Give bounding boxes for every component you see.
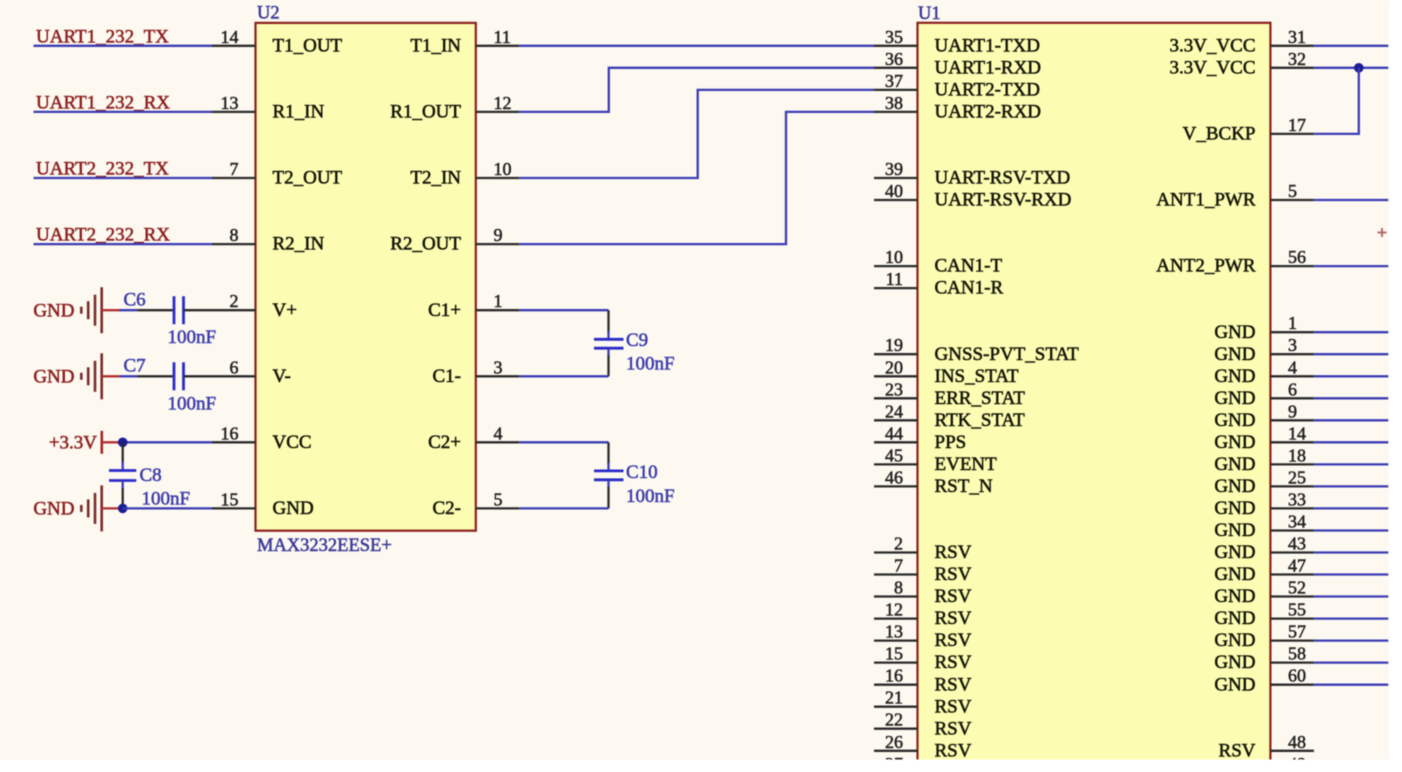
svg-text:13: 13 [221, 93, 239, 113]
svg-text:2: 2 [894, 534, 903, 554]
wire GND to junction [102, 507, 123, 509]
power port +3.3V [49, 431, 123, 454]
svg-text:2: 2 [230, 291, 239, 311]
svg-text:39: 39 [885, 159, 903, 179]
U1 pin 2 RSV [874, 534, 972, 564]
IC U1 designator label [918, 4, 941, 24]
svg-text:U2: U2 [257, 4, 280, 24]
svg-text:7: 7 [894, 556, 903, 576]
svg-text:R1_OUT: R1_OUT [390, 102, 461, 123]
U2 pin 6 V- [212, 357, 291, 387]
svg-text:C7: C7 [124, 356, 146, 377]
wire GND pin34 [1314, 529, 1388, 531]
svg-text:100nF: 100nF [142, 489, 191, 510]
U1 pin 48 RSV [1219, 732, 1314, 762]
U1 pin 43 GND [1214, 534, 1314, 564]
U1 pin 23 ERR_STAT [874, 379, 1025, 409]
svg-text:19: 19 [885, 335, 903, 355]
IC U2 designator label [257, 4, 280, 24]
svg-text:24: 24 [885, 401, 903, 421]
svg-text:13: 13 [885, 622, 903, 642]
svg-text:ERR_STAT: ERR_STAT [935, 388, 1026, 409]
svg-text:8: 8 [230, 225, 239, 245]
svg-text:43: 43 [1288, 534, 1306, 554]
power port + (clipped) [1378, 228, 1387, 237]
svg-text:100nF: 100nF [168, 393, 217, 414]
wire GND pin58 [1314, 661, 1388, 663]
svg-text:VCC: VCC [273, 432, 312, 453]
svg-text:MAX3232EESE+: MAX3232EESE+ [257, 536, 392, 556]
svg-text:18: 18 [1288, 445, 1306, 465]
wire GND pin1 [1314, 331, 1388, 333]
U1 pin 45 EVENT [874, 445, 997, 475]
U2 pin 14 T1_OUT [212, 27, 343, 57]
svg-text:9: 9 [494, 225, 503, 245]
U1 pin 25 GND [1214, 467, 1314, 497]
U1 pin 21 RSV [874, 688, 972, 718]
U1 pin 35 UART1-TXD [874, 27, 1040, 57]
wire GND pin3 [1314, 353, 1388, 355]
svg-text:12: 12 [885, 600, 903, 620]
svg-text:1: 1 [1288, 313, 1297, 333]
svg-text:GND: GND [1214, 520, 1255, 541]
net label UART1_232_TX [36, 26, 169, 47]
svg-text:PPS: PPS [935, 432, 967, 453]
U2 pin 4 C2+ [428, 423, 519, 453]
wire GND pin55 [1314, 617, 1388, 619]
svg-text:3: 3 [494, 357, 503, 377]
wire GND pin47 [1314, 573, 1388, 575]
svg-text:GND: GND [33, 367, 74, 388]
capacitor C9 100nF [594, 310, 675, 376]
svg-text:GND: GND [33, 301, 74, 322]
wire GND to C6 [102, 309, 138, 311]
svg-text:31: 31 [1288, 27, 1306, 47]
U2 pin 11 T1_IN [410, 27, 519, 57]
U2 pin 8 R2_IN [212, 225, 325, 255]
U2 part name MAX3232EESE+ [257, 536, 392, 556]
U1 pin 37 UART2-TXD [874, 71, 1040, 101]
wire C2+ pin4 loop top [519, 441, 608, 443]
ground symbol GND (C6 row) [33, 287, 101, 333]
svg-text:RSV: RSV [935, 696, 972, 717]
svg-text:46: 46 [885, 467, 903, 487]
svg-text:GND: GND [1214, 344, 1255, 365]
U1 pin 40 UART-RSV-RXD [874, 181, 1071, 211]
U1 pin 3 GND [1214, 335, 1314, 365]
svg-text:INS_STAT: INS_STAT [935, 366, 1019, 387]
U1 pin 12 RSV [874, 600, 972, 630]
svg-text:C9: C9 [626, 330, 648, 351]
svg-text:14: 14 [1288, 423, 1306, 443]
capacitor C7 100nF [124, 356, 217, 415]
svg-text:GND: GND [1214, 652, 1255, 673]
U1 pin 26 RSV [874, 732, 972, 762]
svg-text:21: 21 [885, 688, 903, 708]
U2 pin 5 C2- [433, 489, 520, 519]
svg-text:15: 15 [885, 644, 903, 664]
svg-text:6: 6 [230, 357, 239, 377]
svg-text:RSV: RSV [935, 674, 972, 695]
svg-text:6: 6 [1288, 379, 1297, 399]
U1 pin 18 GND [1214, 445, 1314, 475]
svg-text:ANT1_PWR: ANT1_PWR [1156, 190, 1256, 211]
svg-text:UART2_232_RX: UART2_232_RX [36, 225, 170, 246]
svg-text:UART2-RXD: UART2-RXD [935, 102, 1042, 123]
svg-text:UART1_232_RX: UART1_232_RX [36, 93, 170, 114]
svg-text:V-: V- [273, 366, 291, 387]
svg-text:GND: GND [1214, 432, 1255, 453]
svg-text:C1-: C1- [433, 366, 462, 387]
wire GND pin9 [1314, 419, 1388, 421]
svg-text:16: 16 [885, 666, 903, 686]
svg-text:60: 60 [1288, 666, 1306, 686]
wire GND pin60 [1314, 684, 1388, 686]
svg-text:RTK_STAT: RTK_STAT [935, 410, 1026, 431]
svg-text:C6: C6 [124, 290, 146, 311]
U1 pin 31 3.3V_VCC [1169, 27, 1313, 57]
U1 pin 8 RSV [874, 578, 972, 608]
U2 pin 10 T2_IN [410, 159, 519, 189]
capacitor C6 100nF [124, 290, 217, 349]
svg-text:23: 23 [885, 379, 903, 399]
U1 pin 22 RSV [874, 710, 972, 740]
U1 pin 57 GND [1214, 622, 1314, 652]
svg-text:RSV: RSV [935, 630, 972, 651]
svg-text:58: 58 [1288, 644, 1306, 664]
wire GND pin43 [1314, 551, 1388, 553]
U1 pin 16 RSV [874, 666, 972, 696]
U2 pin 13 R1_IN [212, 93, 325, 123]
svg-text:UART-RSV-RXD: UART-RSV-RXD [935, 190, 1072, 211]
svg-text:GND: GND [1214, 630, 1255, 651]
svg-text:UART1_232_TX: UART1_232_TX [36, 26, 169, 47]
svg-text:4: 4 [494, 423, 503, 443]
U1 pin 32 3.3V_VCC [1169, 49, 1313, 79]
U1 pin 44 PPS [874, 423, 966, 453]
wire net UART2_232_TX to U2 [34, 177, 213, 179]
svg-text:RSV: RSV [1219, 740, 1256, 761]
wire V_BCKP pin17 to junction [1314, 68, 1359, 134]
svg-text:22: 22 [885, 710, 903, 730]
svg-text:5: 5 [494, 489, 503, 509]
wire net UART1_232_TX to U2 [34, 45, 213, 47]
wire GND pin52 [1314, 595, 1388, 597]
U1 pin 20 INS_STAT [874, 357, 1019, 387]
svg-text:C1+: C1+ [428, 300, 461, 321]
svg-text:ANT2_PWR: ANT2_PWR [1156, 256, 1256, 277]
svg-text:UART-RSV-TXD: UART-RSV-TXD [935, 168, 1071, 189]
svg-text:GNSS-PVT_STAT: GNSS-PVT_STAT [935, 344, 1080, 365]
svg-text:37: 37 [885, 71, 903, 91]
svg-text:100nF: 100nF [626, 354, 675, 375]
U1 pin 27 RSV [874, 754, 972, 772]
net label UART2_232_RX [36, 225, 170, 246]
svg-text:7: 7 [230, 159, 239, 179]
U1 pin 9 GND [1214, 401, 1314, 431]
wire +3.3V to VCC pin 16 [123, 441, 212, 443]
svg-text:8: 8 [894, 578, 903, 598]
U1 pin 56 ANT2_PWR [1156, 247, 1314, 277]
U1 pin 14 GND [1214, 423, 1314, 453]
net label UART1_232_RX [36, 93, 170, 114]
wire T2_IN to UART2-TXD [519, 90, 874, 178]
svg-text:36: 36 [885, 49, 903, 69]
svg-text:+3.3V: +3.3V [49, 433, 97, 454]
svg-text:UART1-RXD: UART1-RXD [935, 57, 1042, 78]
U1 pin 5 ANT1_PWR [1156, 181, 1314, 211]
svg-text:11: 11 [886, 269, 903, 289]
ground symbol GND (C8 row) [33, 485, 101, 531]
svg-text:RSV: RSV [935, 542, 972, 563]
svg-text:UART2_232_TX: UART2_232_TX [36, 159, 169, 180]
U2 pin 12 R1_OUT [390, 93, 519, 123]
svg-text:GND: GND [1214, 388, 1255, 409]
wire net UART1_232_RX to U2 [34, 111, 213, 113]
svg-text:EVENT: EVENT [935, 454, 998, 475]
junction node at C8 top [118, 438, 128, 448]
U2 pin 3 C1- [433, 357, 520, 387]
svg-text:GND: GND [1214, 322, 1255, 343]
svg-text:R1_IN: R1_IN [273, 102, 325, 123]
svg-text:C2-: C2- [433, 498, 462, 519]
U1 pin 19 GNSS-PVT_STAT [874, 335, 1079, 365]
U1 pin 11 CAN1-R [874, 269, 1003, 299]
ground symbol GND (C7 row) [33, 353, 101, 399]
svg-text:40: 40 [885, 181, 903, 201]
svg-text:32: 32 [1288, 49, 1306, 69]
wire T1_IN to UART1-TXD [519, 45, 874, 47]
svg-text:11: 11 [494, 27, 511, 47]
svg-text:GND: GND [1214, 454, 1255, 475]
svg-text:T2_OUT: T2_OUT [273, 168, 343, 189]
capacitor C10 100nF [594, 442, 675, 508]
U1 pin 13 RSV [874, 622, 972, 652]
svg-text:V+: V+ [273, 300, 297, 321]
IC U2 MAX3232EESE+ body [256, 23, 476, 531]
svg-text:10: 10 [885, 247, 903, 267]
svg-text:GND: GND [273, 498, 314, 519]
U1 pin 1 GND [1214, 313, 1314, 343]
svg-text:RST_N: RST_N [935, 476, 993, 497]
U1 pin 7 RSV [874, 556, 972, 586]
svg-text:26: 26 [885, 732, 903, 752]
svg-text:C10: C10 [626, 462, 658, 483]
svg-text:9: 9 [1288, 401, 1297, 421]
svg-text:52: 52 [1288, 578, 1306, 598]
svg-text:T2_IN: T2_IN [410, 168, 461, 189]
wire GND pin6 [1314, 397, 1388, 399]
svg-text:RSV: RSV [935, 608, 972, 629]
svg-text:GND: GND [1214, 366, 1255, 387]
svg-text:15: 15 [221, 489, 239, 509]
svg-text:CAN1-T: CAN1-T [935, 256, 1003, 277]
U2 pin 16 VCC [212, 423, 312, 453]
svg-text:R2_OUT: R2_OUT [390, 234, 461, 255]
svg-text:16: 16 [221, 423, 239, 443]
svg-text:38: 38 [885, 93, 903, 113]
U1 pin 38 UART2-RXD [874, 93, 1041, 123]
wire R2_OUT to UART2-RXD [519, 112, 874, 244]
svg-text:3.3V_VCC: 3.3V_VCC [1169, 57, 1255, 78]
svg-text:T1_IN: T1_IN [410, 35, 461, 56]
svg-text:GND: GND [1214, 564, 1255, 585]
svg-text:GND: GND [1214, 608, 1255, 629]
svg-text:T1_OUT: T1_OUT [273, 35, 343, 56]
U1 pin 49 RSV [1219, 754, 1314, 772]
wire GND pin25 [1314, 485, 1388, 487]
U1 pin 17 V_BCKP [1183, 115, 1314, 145]
svg-text:33: 33 [1288, 489, 1306, 509]
wire GND pin4 [1314, 375, 1388, 377]
svg-text:4: 4 [1288, 357, 1297, 377]
wire ANT2_PWR pin56 [1314, 265, 1388, 267]
svg-text:RSV: RSV [935, 652, 972, 673]
svg-text:34: 34 [1288, 512, 1306, 532]
wire GND to C7 [102, 375, 138, 377]
svg-text:3.3V_VCC: 3.3V_VCC [1169, 35, 1255, 56]
svg-text:CAN1-R: CAN1-R [935, 278, 1004, 299]
svg-text:48: 48 [1288, 732, 1306, 752]
svg-text:1: 1 [494, 291, 503, 311]
wire 3.3V_VCC pin31 [1314, 45, 1388, 47]
svg-text:GND: GND [1214, 476, 1255, 497]
U1 pin 24 RTK_STAT [874, 401, 1025, 431]
U1 pin 60 GND [1214, 666, 1314, 696]
svg-text:C8: C8 [140, 465, 162, 486]
svg-text:17: 17 [1288, 115, 1306, 135]
svg-text:U1: U1 [918, 4, 941, 24]
wire GND pin57 [1314, 639, 1388, 641]
wire GND pin14 [1314, 441, 1388, 443]
svg-text:55: 55 [1288, 600, 1306, 620]
wire GND pin18 [1314, 463, 1388, 465]
svg-text:56: 56 [1288, 247, 1306, 267]
svg-text:GND: GND [1214, 586, 1255, 607]
svg-text:12: 12 [494, 93, 512, 113]
U1 pin 58 GND [1214, 644, 1314, 674]
capacitor C8 100nF [109, 442, 190, 509]
svg-text:100nF: 100nF [168, 327, 217, 348]
svg-text:47: 47 [1288, 556, 1306, 576]
svg-text:RSV: RSV [935, 740, 972, 761]
svg-text:35: 35 [885, 27, 903, 47]
svg-text:GND: GND [1214, 542, 1255, 563]
wire C2- pin5 loop bottom [519, 507, 608, 509]
svg-text:GND: GND [1214, 674, 1255, 695]
svg-text:C2+: C2+ [428, 432, 461, 453]
svg-text:45: 45 [885, 445, 903, 465]
U1 pin 6 GND [1214, 379, 1314, 409]
svg-text:UART2-TXD: UART2-TXD [935, 80, 1040, 101]
svg-text:3: 3 [1288, 335, 1297, 355]
wire ANT1_PWR pin5 [1314, 199, 1388, 201]
U1 pin 47 GND [1214, 556, 1314, 586]
wire net UART2_232_RX to U2 [34, 243, 213, 245]
U1 pin 39 UART-RSV-TXD [874, 159, 1070, 189]
U1 pin 46 RST_N [874, 467, 993, 497]
U1 pin 55 GND [1214, 600, 1314, 630]
junction node pin32/V_BCKP [1354, 63, 1364, 73]
net label UART2_232_TX [36, 159, 169, 180]
U1 GNSS module component body [918, 23, 1271, 772]
wire junction to GND pin 15 [123, 507, 212, 509]
U1 pin 33 GND [1214, 489, 1314, 519]
svg-text:V_BCKP: V_BCKP [1183, 124, 1256, 145]
svg-text:GND: GND [33, 499, 74, 520]
U1 pin 4 GND [1214, 357, 1314, 387]
svg-text:RSV: RSV [935, 586, 972, 607]
svg-text:14: 14 [221, 27, 239, 47]
svg-text:100nF: 100nF [626, 486, 675, 507]
U2 pin 1 C1+ [428, 291, 519, 321]
svg-text:RSV: RSV [935, 718, 972, 739]
svg-text:25: 25 [1288, 467, 1306, 487]
svg-text:44: 44 [885, 423, 903, 443]
wire R1_OUT to UART1-RXD [519, 68, 874, 112]
U2 pin 15 GND [212, 489, 314, 519]
svg-text:20: 20 [885, 357, 903, 377]
U1 pin 34 GND [1214, 512, 1314, 542]
wire GND pin33 [1314, 507, 1388, 509]
svg-text:10: 10 [494, 159, 512, 179]
svg-text:GND: GND [1214, 498, 1255, 519]
U1 pin 36 UART1-RXD [874, 49, 1041, 79]
U2 pin 9 R2_OUT [390, 225, 519, 255]
svg-text:R2_IN: R2_IN [273, 234, 325, 255]
U2 pin 7 T2_OUT [212, 159, 343, 189]
wire C1+ pin1 loop top [519, 309, 608, 311]
U2 pin 2 V+ [212, 291, 297, 321]
wire C1- pin3 loop bottom [519, 375, 608, 377]
junction node at C8 bottom [118, 504, 128, 514]
svg-text:RSV: RSV [935, 564, 972, 585]
wire 3.3V_VCC pin32 [1314, 67, 1388, 69]
U1 pin 52 GND [1214, 578, 1314, 608]
svg-text:5: 5 [1288, 181, 1297, 201]
U1 pin 10 CAN1-T [874, 247, 1002, 277]
U1 pin 15 RSV [874, 644, 972, 674]
svg-text:57: 57 [1288, 622, 1306, 642]
svg-text:UART1-TXD: UART1-TXD [935, 35, 1040, 56]
svg-text:GND: GND [1214, 410, 1255, 431]
